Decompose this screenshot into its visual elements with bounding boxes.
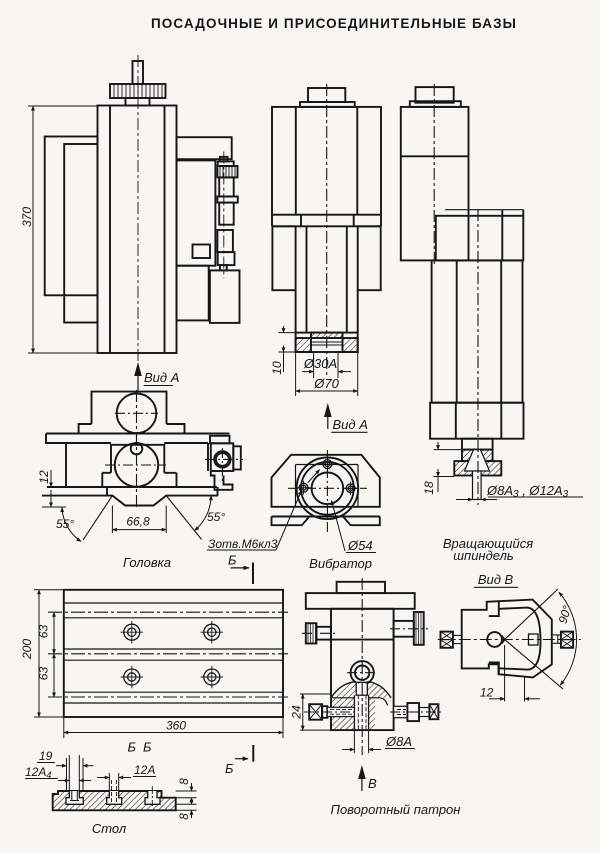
- svg-text:66,8: 66,8: [126, 515, 150, 529]
- svg-text:19: 19: [39, 749, 53, 763]
- svg-text:12: 12: [37, 470, 51, 484]
- svg-text:12: 12: [480, 686, 494, 700]
- svg-text:В: В: [368, 776, 377, 791]
- svg-text:Ø30А: Ø30А: [303, 356, 337, 371]
- svg-text:Ø8А: Ø8А: [385, 734, 412, 749]
- svg-text:370: 370: [20, 207, 34, 227]
- svg-text:18: 18: [422, 481, 436, 495]
- svg-text:63: 63: [37, 625, 51, 639]
- svg-text:Ø54: Ø54: [347, 538, 373, 553]
- svg-text:Зотв.М6кл3: Зотв.М6кл3: [208, 537, 278, 551]
- svg-text:Вибратор: Вибратор: [309, 556, 372, 571]
- svg-text:Стол: Стол: [92, 821, 127, 836]
- svg-text:200: 200: [20, 639, 34, 660]
- svg-text:12А: 12А: [134, 763, 155, 777]
- svg-text:Б: Б: [143, 740, 152, 755]
- svg-text:ПОСАДОЧНЫЕ И ПРИСОЕДИНИТЕЛЬН: ПОСАДОЧНЫЕ И ПРИСОЕДИНИТЕЛЬНЫЕ БАЗЫ: [151, 16, 517, 31]
- svg-text:Вид А: Вид А: [144, 370, 179, 385]
- svg-text:24: 24: [290, 705, 304, 720]
- svg-text:63: 63: [37, 667, 51, 681]
- svg-text:Вид В: Вид В: [478, 572, 514, 587]
- svg-text:Ø8А3 , Ø12А3: Ø8А3 , Ø12А3: [486, 483, 569, 500]
- svg-text:55°: 55°: [207, 510, 225, 524]
- svg-text:шпиндель: шпиндель: [453, 548, 514, 563]
- svg-text:10: 10: [270, 361, 284, 375]
- svg-text:8: 8: [177, 778, 191, 785]
- svg-text:Ø70: Ø70: [313, 376, 339, 391]
- svg-text:Вид А: Вид А: [333, 417, 368, 432]
- svg-text:Б: Б: [225, 761, 234, 776]
- svg-text:8: 8: [177, 813, 191, 820]
- svg-text:Б: Б: [228, 553, 237, 568]
- svg-text:Б: Б: [128, 740, 137, 755]
- svg-text:55°: 55°: [56, 517, 74, 531]
- svg-text:Головка: Головка: [123, 555, 171, 570]
- svg-text:360: 360: [166, 719, 186, 733]
- svg-text:Поворотный патрон: Поворотный патрон: [331, 802, 461, 817]
